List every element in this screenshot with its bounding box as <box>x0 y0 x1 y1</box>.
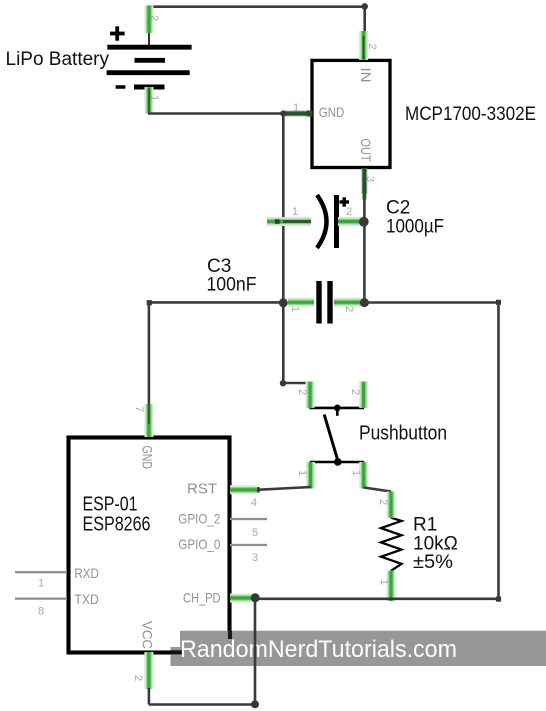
svg-text:1: 1 <box>350 470 362 476</box>
svg-text:OUT: OUT <box>358 139 374 162</box>
wire pushbutton feed <box>280 380 310 386</box>
svg-text:1: 1 <box>293 102 299 114</box>
S1 pin 1 left leg <box>296 462 311 489</box>
svg-text:1: 1 <box>38 578 44 590</box>
C2 pin 1 leg <box>267 206 311 224</box>
svg-text:1: 1 <box>292 206 298 218</box>
svg-text:2: 2 <box>346 206 352 218</box>
svg-text:Pushbutton: Pushbutton <box>359 423 447 445</box>
U1 pin 1 GND leg <box>284 102 344 120</box>
svg-text:ESP8266: ESP8266 <box>83 514 151 536</box>
wire CH_PD down and around to VCC <box>149 598 259 708</box>
svg-text:ESP-01: ESP-01 <box>83 494 138 516</box>
junction C3 left node dot <box>279 298 288 307</box>
svg-text:8: 8 <box>38 606 44 618</box>
svg-text:RST: RST <box>187 480 217 497</box>
regulator U1 MCP1700-3302E box <box>312 60 390 167</box>
U2 pin 4 RST leg <box>187 480 257 509</box>
wire C3 row left: corner to left junction <box>147 300 284 404</box>
S1 pin 2 right leg <box>349 382 364 408</box>
svg-text:RandomNerdTutorials.com: RandomNerdTutorials.com <box>180 636 457 663</box>
wire battery- to GND junction <box>148 112 312 115</box>
wire pushbutton to R1 <box>364 488 391 492</box>
junction C2 node dot <box>359 217 369 227</box>
svg-text:2: 2 <box>366 44 378 50</box>
R1 pin 2 leg <box>377 492 391 518</box>
junction C3 right node dot <box>360 298 369 307</box>
S1 pin 1 right leg <box>350 462 364 489</box>
U2 pin 3 GPIO_0 stub <box>178 536 267 564</box>
wire right rail down <box>497 303 500 600</box>
capacitor C3 100nF <box>319 281 330 324</box>
svg-text:3: 3 <box>364 176 376 182</box>
U1 pin 3 OUT leg <box>358 139 376 200</box>
R1 pin 1 leg <box>378 571 391 601</box>
battery pin 2 leg <box>148 6 160 34</box>
svg-text:C2: C2 <box>386 198 410 219</box>
junction GND node dot <box>280 110 286 116</box>
U2 CH_PD leg <box>183 590 255 606</box>
wire C3 junction right to right rail <box>364 300 501 305</box>
svg-text:1: 1 <box>378 579 390 585</box>
svg-text:3: 3 <box>252 552 258 564</box>
svg-text:R1: R1 <box>413 515 437 536</box>
svg-text:1000µF: 1000µF <box>386 217 444 238</box>
wire left-mid rail down <box>282 114 285 384</box>
wire RST to pushbutton <box>254 487 311 493</box>
C2 pin 2 leg <box>338 206 362 222</box>
svg-text:2: 2 <box>349 389 361 395</box>
U2 pin 7 GND leg <box>133 404 156 469</box>
ESP-01 module U2 box <box>69 438 230 653</box>
svg-text:5: 5 <box>252 527 258 539</box>
C3 pin 2 leg <box>334 302 363 312</box>
svg-text:1: 1 <box>148 95 160 101</box>
svg-text:2: 2 <box>296 389 308 395</box>
U2 pin 8 TXD stub <box>15 591 99 618</box>
svg-text:2: 2 <box>343 306 355 312</box>
svg-text:LiPo Battery: LiPo Battery <box>6 49 110 70</box>
svg-text:±5%: ±5% <box>413 552 453 573</box>
U2 pin 5 GPIO_2 stub <box>178 510 267 539</box>
capacitor C2 1000uF electrolytic <box>317 195 349 248</box>
svg-text:4: 4 <box>251 497 257 509</box>
svg-text:CH_PD: CH_PD <box>183 590 221 606</box>
wire bottom rail <box>255 597 499 600</box>
svg-text:100nF: 100nF <box>207 275 257 296</box>
U2 pin 2 VCC leg <box>132 621 156 689</box>
svg-text:GND: GND <box>319 104 345 120</box>
svg-text:2: 2 <box>148 15 160 21</box>
svg-text:MCP1700-3302E: MCP1700-3302E <box>405 104 536 125</box>
svg-text:GND: GND <box>140 446 156 470</box>
svg-text:VCC: VCC <box>140 621 156 649</box>
svg-text:1: 1 <box>296 470 308 476</box>
resistor R1 <box>381 518 402 571</box>
junction CH_PD node dot <box>251 593 260 602</box>
watermark RandomNerdTutorials.com <box>171 631 546 666</box>
svg-text:GPIO_2: GPIO_2 <box>178 510 220 526</box>
U2 pin 1 RXD stub <box>15 565 99 590</box>
C3 pin 1 leg <box>288 302 314 312</box>
S1 pin 2 left leg <box>296 382 310 408</box>
svg-text:2: 2 <box>377 499 389 505</box>
battery pin 1 leg <box>148 87 160 114</box>
svg-text:TXD: TXD <box>74 591 99 607</box>
wire right rail corner bottom <box>496 597 501 602</box>
wire C2 junction down to C3 junction <box>363 222 366 303</box>
U1 pin 2 IN leg <box>358 31 378 83</box>
pushbutton S1 <box>310 405 365 466</box>
svg-text:7: 7 <box>133 406 145 412</box>
svg-text:GPIO_0: GPIO_0 <box>178 536 220 552</box>
svg-text:RXD: RXD <box>74 565 99 581</box>
wire top rail battery+ to regulator IN <box>149 3 368 32</box>
svg-text:IN: IN <box>358 68 374 83</box>
svg-text:1: 1 <box>289 306 301 312</box>
wire OUT to C2 junction <box>363 194 366 222</box>
battery BT1 LiPo <box>107 26 192 87</box>
svg-text:2: 2 <box>132 675 144 681</box>
